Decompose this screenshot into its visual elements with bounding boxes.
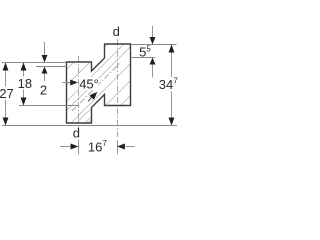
svg-text:45°: 45° (79, 76, 99, 91)
svg-text:18: 18 (18, 76, 32, 91)
svg-text:27: 27 (0, 86, 14, 101)
svg-text:d: d (73, 126, 80, 141)
svg-text:d: d (113, 24, 120, 39)
svg-text:2: 2 (40, 83, 47, 98)
